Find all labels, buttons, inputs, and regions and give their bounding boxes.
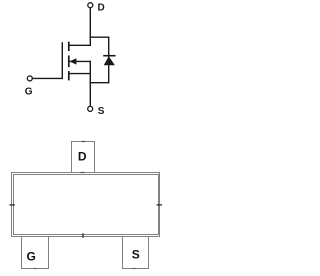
pin D tab outline	[72, 142, 95, 173]
transistor Q1 channel middle bar	[68, 56, 70, 68]
body diode cathode bar	[103, 55, 115, 57]
top edge center tick mark	[81, 172, 85, 174]
svg-text:G: G	[25, 87, 33, 98]
wire diode vertical	[108, 37, 110, 84]
wire diode bottom branch	[90, 82, 109, 84]
svg-text:G: G	[27, 249, 36, 263]
svg-text:D: D	[98, 3, 105, 14]
wire drain vertical	[89, 8, 91, 46]
pin S tab outline	[123, 237, 149, 269]
wire gate lead	[33, 77, 63, 79]
wire body contact	[70, 60, 91, 62]
wire drain contact	[68, 44, 91, 46]
right edge tick mark	[157, 204, 162, 206]
body diode anode triangle	[104, 56, 115, 65]
package body inner outline	[14, 175, 159, 235]
terminal D circle	[88, 3, 93, 8]
transistor Q1 body arrow	[70, 58, 77, 64]
svg-text:D: D	[78, 149, 87, 163]
svg-text:S: S	[98, 106, 105, 117]
transistor Q1 gate bar	[61, 42, 63, 79]
bottom edge center tick mark	[82, 233, 84, 238]
wire source vertical	[89, 61, 91, 107]
left edge tick mark	[10, 204, 15, 206]
transistor Q1 channel top bar	[68, 42, 70, 51]
pin G tab bottom center tick	[34, 268, 37, 270]
pin S tab bottom center tick	[132, 268, 136, 270]
pin D tab top center tick	[82, 141, 85, 143]
transistor Q1 channel bottom bar	[68, 71, 70, 80]
pin G tab outline	[22, 237, 49, 269]
wire source contact	[70, 73, 91, 75]
wire diode top branch	[90, 36, 109, 38]
package body outer outline	[12, 173, 160, 237]
svg-text:S: S	[132, 248, 140, 262]
terminal G circle	[27, 76, 32, 81]
terminal S circle	[88, 106, 93, 111]
